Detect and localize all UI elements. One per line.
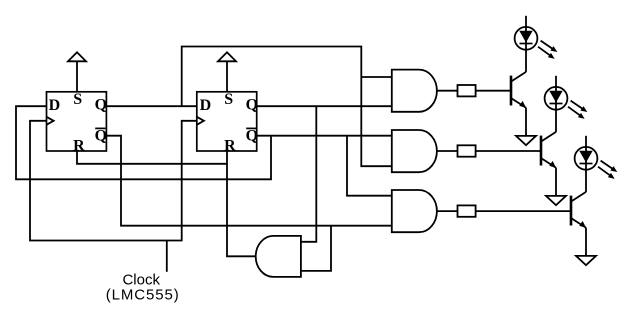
- svg-text:D: D: [49, 97, 61, 114]
- svg-text:S: S: [73, 91, 82, 108]
- LED D3: [575, 136, 618, 192]
- wire Qbar2 branch to AND3 top input: [347, 136, 392, 196]
- power symbol at U2 S: [218, 52, 236, 61]
- ground 1: [516, 108, 536, 146]
- wire clock stub to label: [166, 241, 168, 272]
- wire Q1 to AND1 top input: [361, 76, 392, 78]
- wire Qbar1 to AND3 bottom input: [106, 136, 391, 226]
- svg-text:Q: Q: [95, 97, 107, 114]
- LED D2: [545, 76, 588, 132]
- wire Qbar2 to AND2 top input: [257, 135, 392, 137]
- wire AND2 output to R2: [437, 150, 458, 152]
- svg-text:Q: Q: [95, 128, 107, 145]
- wire Q1 to D2: [106, 105, 196, 107]
- svg-text:Q: Q: [246, 128, 258, 145]
- svg-text:R: R: [73, 137, 85, 154]
- transistor Q1: [511, 72, 526, 108]
- flip-flop U2 box: [197, 92, 257, 151]
- wire AND4 output to R pins: [227, 151, 256, 256]
- wire R2 to Q2 base: [476, 150, 540, 152]
- resistor R1: [458, 85, 476, 96]
- U1 clock input triangle: [47, 117, 54, 125]
- wire U1 D input from left: [16, 106, 271, 179]
- svg-text:(LMC555): (LMC555): [106, 287, 180, 304]
- transistor Q2: [541, 132, 556, 168]
- wire reset net R1: [77, 151, 227, 164]
- AND gate U5: [392, 190, 437, 232]
- resistor R2: [458, 145, 476, 156]
- wire Q2 branch down to AND4: [301, 106, 316, 242]
- U2 clock input triangle: [197, 117, 204, 125]
- transistor Q3: [571, 192, 586, 228]
- wire R1 to Q1 base: [476, 90, 510, 92]
- wire S1 to power: [76, 61, 78, 92]
- flip-flop U1 box: [47, 92, 107, 151]
- wire clock net U1: [30, 121, 197, 241]
- AND gate U3: [392, 70, 437, 112]
- wire Q2 to AND1 bottom input: [257, 105, 392, 107]
- wire AND4 bottom input branch: [301, 226, 331, 271]
- ground 2: [546, 168, 566, 206]
- svg-text:Q: Q: [246, 97, 258, 114]
- ground 3: [576, 228, 596, 266]
- wire S2 to power: [226, 61, 228, 92]
- LED D1: [515, 16, 558, 72]
- resistor R3: [458, 205, 476, 216]
- wire R3 to Q3 base: [476, 210, 570, 212]
- wire AND1 output to R1: [437, 90, 458, 92]
- AND gate U4: [392, 130, 437, 172]
- svg-text:D: D: [200, 97, 212, 114]
- AND gate U6 (mirrored): [256, 236, 301, 277]
- power symbol at U1 S: [68, 52, 86, 61]
- wire AND3 output to R3: [437, 210, 458, 212]
- svg-text:R: R: [224, 137, 236, 154]
- svg-text:S: S: [224, 91, 233, 108]
- wire Q1 branch up and over: [182, 47, 392, 167]
